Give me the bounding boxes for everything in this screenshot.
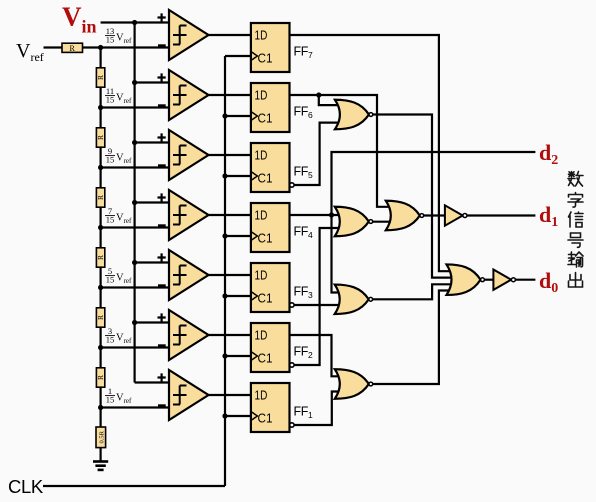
- wire clock to FF7 C1: [225, 55, 251, 57]
- gate G3 NOR(Q6,Q5bar) (NOR): [335, 100, 373, 130]
- wire FF4 Q to NOR2: [290, 214, 344, 216]
- wire comparator 2 inverting input (ladder tap 11/15): [101, 106, 169, 108]
- junction Vin tap 4: [132, 200, 137, 205]
- wire comparator 6 inverting input (ladder tap 3/15): [101, 346, 169, 348]
- flip-flop FF5: [251, 143, 290, 192]
- label ladder tap 9/15 Vref: [105, 146, 132, 165]
- wire NOR3 output to inverter G1: [422, 214, 447, 216]
- ground: [93, 460, 108, 463]
- wire NORX output to NOR5: [372, 284, 458, 299]
- wire comparator 3 noninverting input (Vin): [135, 141, 169, 143]
- wire CLK: [43, 485, 225, 487]
- svg-text:1D: 1D: [255, 268, 268, 283]
- junction FF6 Q branch: [316, 92, 321, 97]
- wire ladder vertical: [99, 48, 101, 462]
- wire R to ladder top: [83, 46, 101, 48]
- label ladder tap 11/15 Vref: [105, 86, 132, 105]
- gate G4 NOR(Q4,Q2bar) (NOR): [335, 207, 373, 237]
- wire clock to FF2 C1: [225, 355, 251, 357]
- junction d2 tap: [329, 212, 334, 217]
- wire FF5 Qbar to NOR1: [294, 123, 343, 185]
- svg-text:R: R: [96, 135, 105, 140]
- wire NOR2 output to NOR3: [372, 221, 396, 223]
- label comparator 5 plus: [158, 253, 166, 261]
- comparator A3: [169, 130, 209, 180]
- svg-text:C1: C1: [258, 111, 273, 126]
- label comparator 2 plus: [158, 73, 166, 81]
- wire clock to FF3 C1: [225, 295, 251, 297]
- label comparator 1 minus: [158, 44, 166, 47]
- wire clock to FF5 C1: [225, 175, 251, 177]
- junction Vin tap 5: [132, 260, 137, 265]
- svg-text:R: R: [70, 44, 76, 53]
- resistor R (ladder 5): [96, 248, 104, 267]
- wire FF3 Qbar to NORX: [294, 304, 343, 306]
- junction clock FF5: [222, 173, 227, 178]
- node 5/15 Vref tap: [98, 285, 103, 290]
- label comparator 6 plus: [158, 313, 166, 321]
- node 1/15 Vref tap: [98, 405, 103, 410]
- svg-text:1D: 1D: [255, 148, 268, 163]
- wire FF6 Q branch to NOR1: [319, 95, 343, 105]
- comparator A7: [169, 370, 209, 420]
- wire comparator 2 output: [209, 94, 251, 96]
- svg-text:R: R: [96, 375, 105, 380]
- flip-flop FF4: [251, 203, 290, 252]
- wire FF7 Q to NOR5: [290, 35, 458, 271]
- wire comparator 7 noninverting input (Vin): [135, 381, 169, 383]
- node 11/15 Vref tap: [98, 105, 103, 110]
- wire Vin distribution vertical: [134, 23, 136, 383]
- svg-text:C1: C1: [258, 351, 273, 366]
- wire comparator 7 output: [209, 394, 251, 396]
- wire comparator 6 output: [209, 334, 251, 336]
- svg-text:C1: C1: [258, 231, 273, 246]
- wire comparator 3 output: [209, 154, 251, 156]
- svg-text:R: R: [96, 75, 105, 80]
- gate G5 NOR for d1 (NOR): [386, 201, 424, 231]
- junction Vin tap 2: [132, 80, 137, 85]
- wire comparator 1 noninverting input (Vin): [101, 21, 169, 23]
- wire comparator 5 output: [209, 274, 251, 276]
- svg-text:C1: C1: [258, 291, 273, 306]
- wire d2 output: [332, 152, 536, 215]
- svg-text:1D: 1D: [255, 328, 268, 343]
- label comparator 3 minus: [158, 164, 166, 167]
- svg-text:15: 15: [106, 214, 115, 224]
- wire Vref to R: [44, 46, 63, 48]
- label ladder tap 3/15 Vref: [105, 326, 132, 345]
- svg-text:0.5R: 0.5R: [98, 430, 105, 443]
- junction clock FF2: [222, 353, 227, 358]
- svg-text:R: R: [96, 255, 105, 260]
- wire comparator 6 noninverting input (Vin): [135, 321, 169, 323]
- gate G6 NOR(Q4,Q3bar) (NOR): [335, 285, 373, 315]
- inverter G2 (d0): [493, 270, 515, 290]
- label ladder tap 1/15 Vref: [105, 386, 132, 405]
- resistor R (ladder 3): [96, 128, 104, 147]
- svg-text:15: 15: [106, 394, 115, 404]
- wire comparator 4 output: [209, 214, 251, 216]
- label comparator 2 minus: [158, 104, 166, 107]
- svg-text:R: R: [96, 315, 105, 320]
- node 7/15 Vref tap: [98, 225, 103, 230]
- node 9/15 Vref tap: [98, 165, 103, 170]
- flip-flop FF7: [251, 23, 290, 72]
- label comparator 3 plus: [158, 133, 166, 141]
- junction Vin tap 6: [132, 320, 137, 325]
- pin FF3 Qbar bubble: [290, 303, 294, 307]
- inverter G1 (d1): [445, 205, 467, 225]
- wire clock vertical: [224, 56, 226, 486]
- comparator A5: [169, 250, 209, 300]
- label comparator 7 minus: [158, 404, 166, 407]
- wire comparator 2 noninverting input (Vin): [135, 81, 169, 83]
- svg-text:15: 15: [106, 274, 115, 284]
- label ladder tap 13/15 Vref: [105, 26, 132, 45]
- comparator A4: [169, 190, 209, 240]
- resistor R (ladder 6): [96, 308, 104, 327]
- svg-text:15: 15: [106, 154, 115, 164]
- svg-text:C1: C1: [258, 51, 273, 66]
- wire comparator 1 output: [209, 34, 251, 36]
- wire NOR1 output to NOR5: [372, 115, 457, 278]
- junction clock FF3: [222, 293, 227, 298]
- wire comparator 5 noninverting input (Vin): [135, 261, 169, 263]
- wire comparator 7 inverting input (ladder tap 1/15): [101, 406, 169, 408]
- label comparator 1 plus: [158, 13, 166, 21]
- junction Vin tap 3: [132, 140, 137, 145]
- label comparator 4 plus: [158, 193, 166, 201]
- wire d1 output: [467, 214, 536, 216]
- label ladder tap 7/15 Vref: [105, 206, 132, 225]
- label comparator 4 minus: [158, 224, 166, 227]
- wire comparator 3 inverting input (ladder tap 9/15): [101, 166, 169, 168]
- resistor 0.5R (ladder bottom): [96, 427, 106, 448]
- label caption digital-signal-output (Chinese): [568, 172, 583, 288]
- svg-text:1D: 1D: [255, 28, 268, 43]
- svg-text:C1: C1: [258, 171, 273, 186]
- wire comparator 5 inverting input (ladder tap 5/15): [101, 286, 169, 288]
- wire clock to FF1 C1: [225, 415, 251, 417]
- node 3/15 Vref tap: [98, 345, 103, 350]
- flip-flop FF2: [251, 323, 290, 372]
- pin FF1 Qbar bubble: [290, 423, 294, 427]
- svg-text:15: 15: [106, 334, 115, 344]
- wire NOR4 output to NOR5: [372, 291, 457, 385]
- label comparator 7 plus: [158, 373, 166, 381]
- wire clock to FF6 C1: [225, 115, 251, 117]
- svg-text:15: 15: [106, 34, 115, 44]
- wire d0 output: [515, 279, 535, 281]
- svg-text:C1: C1: [258, 411, 273, 426]
- junction Vin tap 1: [132, 20, 137, 25]
- comparator A6: [169, 310, 209, 360]
- pin FF5 Qbar bubble: [290, 183, 294, 187]
- svg-text:1D: 1D: [255, 88, 268, 103]
- svg-text:R: R: [96, 195, 105, 200]
- wire FF6 Q to NOR3: [290, 95, 395, 207]
- wire Q4 down to NORX: [332, 215, 344, 293]
- flip-flop FF1: [251, 383, 290, 432]
- resistor R (ladder 7): [96, 368, 104, 387]
- resistor R (ladder 2): [96, 68, 104, 87]
- label comparator 5 minus: [158, 284, 166, 287]
- gate G8 NOR for d0 (NOR): [447, 264, 485, 295]
- flip-flop FF6: [251, 83, 290, 132]
- gate G7 NOR(Q2,Q1bar) (NOR): [335, 369, 373, 399]
- svg-text:1D: 1D: [255, 208, 268, 223]
- flip-flop FF3: [251, 263, 290, 312]
- label ladder tap 5/15 Vref: [105, 266, 132, 285]
- wire comparator 1 inverting input (ladder tap 13/15): [101, 46, 169, 48]
- wire FF2 Q to NOR4: [290, 335, 344, 376]
- wire NOR5 output to inverter G2: [482, 279, 494, 281]
- svg-text:15: 15: [106, 94, 115, 104]
- wire FF2 Qbar to NOR2: [294, 228, 343, 365]
- junction clock FF6: [222, 113, 227, 118]
- pin FF2 Qbar bubble: [290, 363, 294, 367]
- wire clock to FF4 C1: [225, 235, 251, 237]
- resistor R (top, horizontal): [62, 43, 83, 52]
- svg-text:CLK: CLK: [8, 476, 44, 497]
- wire FF1 Qbar to NOR4: [294, 392, 343, 426]
- resistor R (ladder 4): [96, 188, 104, 207]
- svg-text:1D: 1D: [255, 388, 268, 403]
- wire comparator 4 noninverting input (Vin): [135, 201, 169, 203]
- junction clock FF1: [222, 413, 227, 418]
- wire comparator 4 inverting input (ladder tap 7/15): [101, 226, 169, 228]
- node 13/15 Vref tap: [98, 45, 103, 50]
- comparator A1: [169, 10, 209, 60]
- comparator A2: [169, 70, 209, 120]
- junction clock FF4: [222, 233, 227, 238]
- label comparator 6 minus: [158, 344, 166, 347]
